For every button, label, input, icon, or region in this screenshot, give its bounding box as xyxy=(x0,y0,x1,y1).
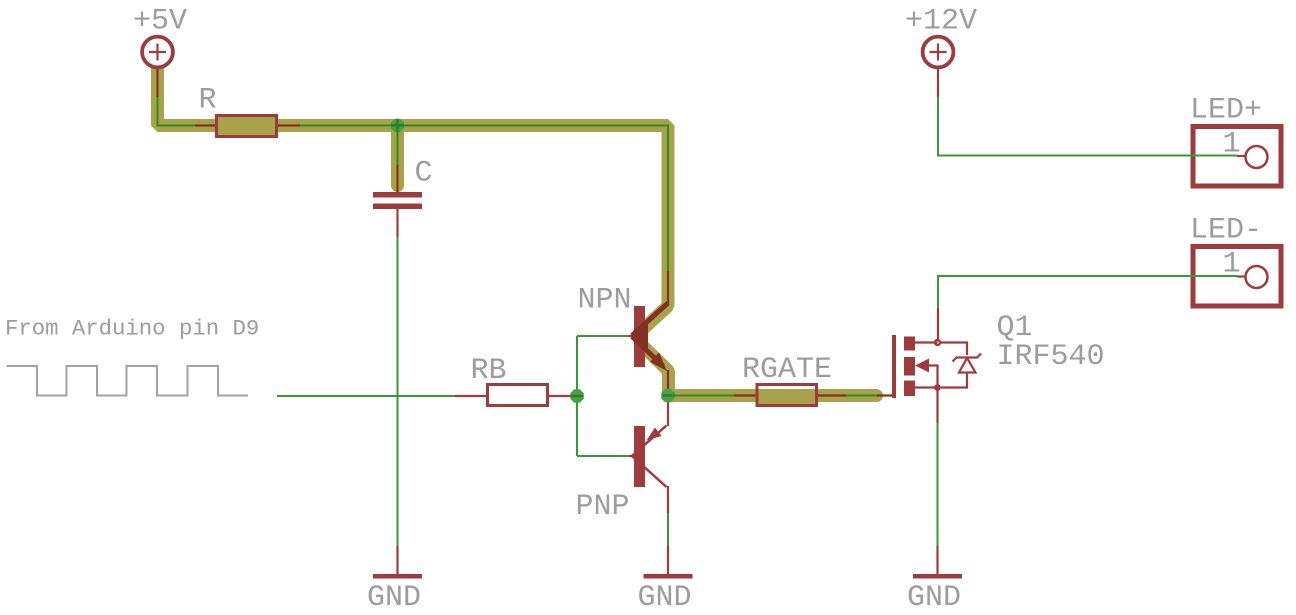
wire RB node to NPN/PNP bases xyxy=(577,336,629,456)
pin stub GND2 xyxy=(667,546,669,574)
svg-text:NPN: NPN xyxy=(578,284,632,318)
pin stub GND3 xyxy=(936,546,938,574)
svg-text:LED-: LED- xyxy=(1190,214,1262,248)
svg-text:1: 1 xyxy=(1223,248,1241,282)
highlighted net (olive) from NPN emitter through RGATE to MOSFET gate xyxy=(645,348,877,396)
svg-text:LED+: LED+ xyxy=(1190,94,1262,128)
PNP collector diagonal xyxy=(632,456,667,487)
MOSFET drain junction ring xyxy=(935,340,940,345)
square wave signal icon xyxy=(7,366,249,396)
body diode anode triangle xyxy=(959,358,976,373)
ground bar GND1 xyxy=(373,574,422,579)
pin stub GND1 xyxy=(396,546,398,574)
NPN wedge fill between diagonals xyxy=(632,322,649,351)
MOSFET drain link xyxy=(915,341,938,343)
wire MOSFET source to GND xyxy=(937,423,939,546)
wire C to GND xyxy=(397,237,399,546)
resistor RB xyxy=(488,385,548,406)
wire +5V (dark green inside highlight) xyxy=(158,97,669,271)
pin stub capacitor C top (dark, in highlight) xyxy=(396,165,398,192)
wire LED- left and down to MOSFET drain xyxy=(938,276,1237,308)
pin stub NPN collector (dark, in highlight) xyxy=(667,271,669,304)
wire junction to C (dark green inside highlight) xyxy=(397,126,399,165)
pin stub PNP emitter from node xyxy=(667,400,669,426)
MOSFET channel bar middle (body) xyxy=(904,357,915,376)
supply +5V symbol xyxy=(142,37,173,68)
highlighted net (olive) branch to capacitor C xyxy=(391,126,404,186)
pin stubs of R (dark, in highlight) xyxy=(195,124,300,126)
capacitor C plates xyxy=(373,192,422,198)
MOSFET Q1 gate bar xyxy=(892,335,896,398)
highlighted net (olive) from +5V through R to NPN collector xyxy=(158,66,669,330)
pin stubs LED+ / LED- xyxy=(1237,156,1246,276)
svg-text:R: R xyxy=(199,84,217,118)
MOSFET body arrow xyxy=(915,359,929,373)
supply +12V symbol xyxy=(923,37,954,68)
svg-text:RGATE: RGATE xyxy=(742,353,832,387)
svg-text:IRF540: IRF540 xyxy=(997,340,1105,374)
svg-text:GND: GND xyxy=(638,581,692,615)
body diode bottom link xyxy=(941,373,967,388)
connector LED+ pin circle xyxy=(1246,146,1268,168)
wire From-Arduino to RB xyxy=(277,395,455,397)
connector LED- pin circle xyxy=(1246,266,1268,288)
ground bar GND2 xyxy=(644,574,693,579)
PNP emitter arrow xyxy=(647,428,662,441)
svg-text:+12V: +12V xyxy=(905,5,977,39)
ground bar GND3 xyxy=(913,574,962,579)
svg-text:C: C xyxy=(415,157,433,191)
PNP emitter diagonal xyxy=(632,426,667,457)
wire PNP collector to GND xyxy=(667,513,669,546)
wire into LED- box xyxy=(1189,275,1237,277)
body diode top link xyxy=(940,343,967,356)
svg-text:GND: GND xyxy=(367,581,421,615)
junction dot at RB/bases xyxy=(570,389,583,402)
svg-text:From Arduino pin D9: From Arduino pin D9 xyxy=(5,316,259,342)
pin stubs RGATE (dark, in highlight) xyxy=(734,394,892,396)
pin stubs NPN/PNP base xyxy=(629,336,634,456)
MOSFET channel bar bottom (source) xyxy=(904,381,915,397)
resistor RGATE interior highlight fill xyxy=(758,389,816,404)
pin stub +12V xyxy=(937,68,939,97)
NPN emitter diagonal (dark, in highlight) xyxy=(632,337,663,367)
resistor R body fill (highlighted) xyxy=(217,116,277,137)
NPN collector diagonal (dark, in highlight) xyxy=(632,303,668,336)
resistor RGATE outline xyxy=(757,385,817,406)
body diode cathode (zener bar) xyxy=(953,354,982,362)
MOSFET source link xyxy=(915,386,938,388)
svg-text:RB: RB xyxy=(471,354,507,388)
junction dot at R/C xyxy=(391,119,404,132)
pin stubs RB xyxy=(455,395,571,397)
connector LED- box xyxy=(1193,247,1281,307)
pin stub MOSFET source down xyxy=(936,390,938,423)
svg-text:+5V: +5V xyxy=(133,5,187,39)
wire +12V down and right to LED+ xyxy=(938,97,1237,156)
MOSFET source junction dot xyxy=(934,384,941,391)
wire into LED+ box xyxy=(1189,155,1237,157)
resistor R outline xyxy=(217,116,277,137)
wire node to RGATE and RGATE to gate (dark green inside highlight) xyxy=(662,395,877,397)
MOSFET body link xyxy=(928,366,938,387)
pin stub +5V (dark, in highlight) xyxy=(156,66,158,97)
svg-text:PNP: PNP xyxy=(576,490,630,524)
connector LED+ box xyxy=(1193,127,1281,187)
NPN transistor base bar xyxy=(634,306,645,367)
svg-text:1: 1 xyxy=(1223,128,1241,162)
pin stub MOSFET drain up xyxy=(937,308,939,340)
pin stub capacitor C bottom xyxy=(396,209,398,237)
MOSFET channel bar top (drain) xyxy=(904,337,915,351)
pin stub NPN emitter to node (dark, in highlight) xyxy=(667,370,669,392)
NPN emitter arrow xyxy=(650,353,667,372)
junction dot at emitters/RGATE node xyxy=(661,389,674,402)
PNP transistor base bar xyxy=(634,426,645,487)
svg-text:GND: GND xyxy=(907,581,961,615)
pin stub PNP collector xyxy=(667,486,669,513)
